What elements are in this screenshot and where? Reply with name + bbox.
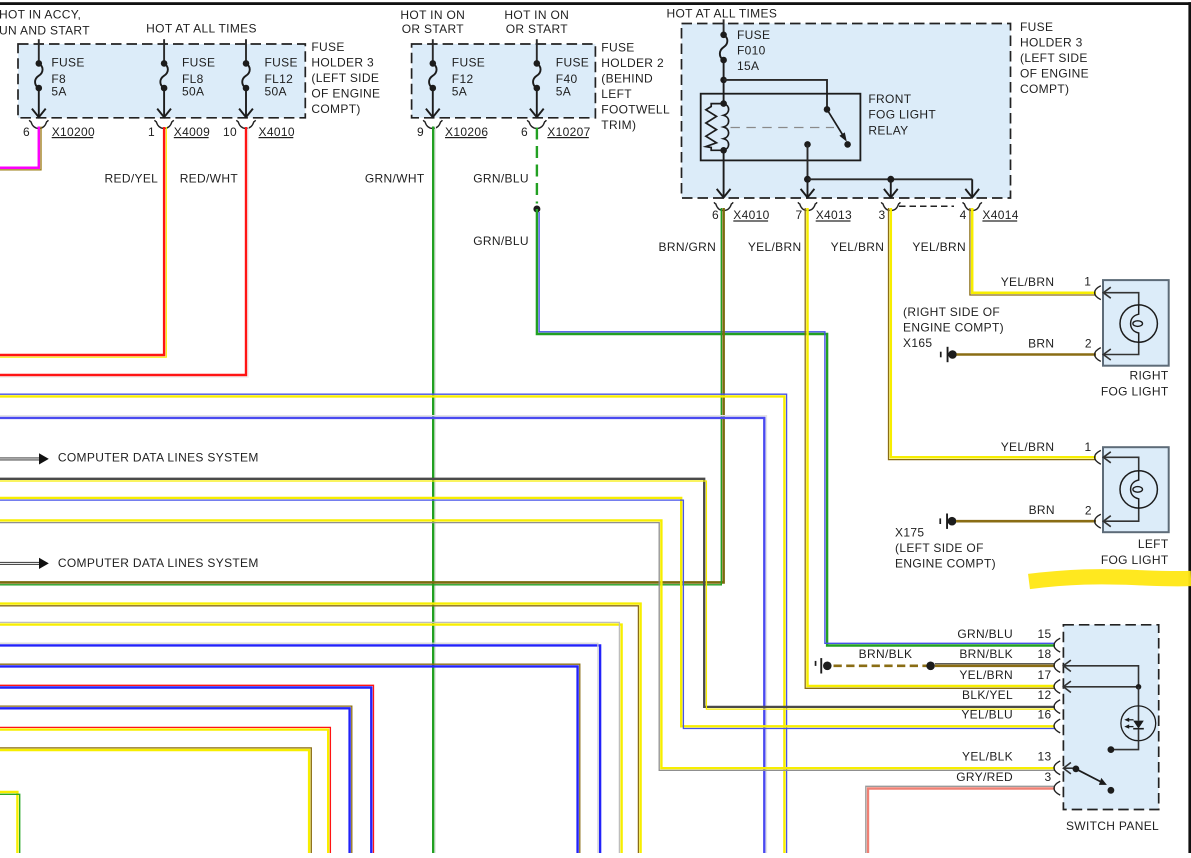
node fuse output junction	[720, 77, 727, 84]
fuse F40 5A	[530, 60, 544, 117]
svg-text:7: 7	[795, 208, 802, 222]
svg-text:X10200: X10200	[52, 125, 95, 139]
wire GRN/WHT from X10206 pin 9 to bottom edge	[432, 127, 434, 854]
svg-text:HOLDER 3: HOLDER 3	[311, 56, 374, 70]
switch panel internal wiring pin 17	[1063, 686, 1138, 688]
svg-text:GRN/WHT: GRN/WHT	[365, 171, 425, 185]
wire BRN to right fog light pin 2	[957, 353, 1097, 356]
pin 17 bracket	[1054, 680, 1060, 694]
svg-text:GRN/BLU: GRN/BLU	[957, 627, 1013, 641]
left fog light pin 2 bracket and arrow	[1095, 514, 1101, 528]
relay coil arcs	[724, 104, 729, 151]
wire YEL/BLK left edge to switch panel pin 13	[0, 520, 1055, 768]
node LED terminal	[1108, 746, 1115, 753]
svg-text:FUSE: FUSE	[601, 41, 634, 55]
node output junction 2	[887, 176, 894, 183]
svg-text:1: 1	[1084, 275, 1091, 289]
svg-text:OR START: OR START	[402, 22, 465, 36]
svg-text:X175: X175	[895, 526, 924, 540]
wire junction to switch upper contact	[724, 80, 827, 107]
wire stub into F010	[723, 19, 725, 34]
left fog light internal wiring	[1103, 457, 1138, 521]
svg-text:HOT AT ALL TIMES: HOT AT ALL TIMES	[667, 7, 778, 21]
wire relay output down	[807, 144, 809, 179]
svg-text:(BEHIND: (BEHIND	[601, 72, 653, 86]
svg-text:18: 18	[1037, 647, 1051, 661]
svg-text:FOOTWELL: FOOTWELL	[601, 103, 670, 117]
fuse FL12 50A	[239, 60, 253, 117]
svg-text:YEL/BRN: YEL/BRN	[1001, 440, 1055, 454]
svg-text:HOT IN ON: HOT IN ON	[400, 8, 465, 22]
wire BLU/BRN left edge to bottom 1	[0, 666, 578, 853]
splice X165	[940, 352, 942, 358]
svg-text:10: 10	[223, 125, 237, 139]
right fog light pin 1 bracket and arrow	[1095, 286, 1101, 300]
svg-text:(LEFT SIDE: (LEFT SIDE	[311, 71, 379, 85]
svg-text:6: 6	[521, 125, 528, 139]
wire to pin 3 with arrow	[884, 179, 898, 197]
relay actuator dashed link	[731, 127, 835, 129]
svg-text:OR START: OR START	[506, 22, 569, 36]
svg-text:HOT IN ACCY,: HOT IN ACCY,	[0, 8, 81, 22]
svg-text:15A: 15A	[737, 59, 759, 73]
svg-text:3: 3	[1044, 770, 1051, 784]
svg-text:RELAY: RELAY	[868, 123, 908, 137]
svg-text:FOG LIGHT: FOG LIGHT	[1101, 553, 1169, 567]
relay output contact	[804, 141, 811, 148]
wire YEL/BLU left edge to bottom (upper)	[0, 396, 784, 853]
wire computer data lines 1	[0, 458, 39, 460]
svg-text:X4009: X4009	[174, 125, 210, 139]
svg-text:X4014: X4014	[982, 208, 1018, 222]
svg-text:COMPUTER DATA LINES SYSTEM: COMPUTER DATA LINES SYSTEM	[58, 451, 259, 465]
svg-text:5A: 5A	[556, 85, 571, 99]
LED circle	[1121, 706, 1156, 741]
left fog light bulb	[1120, 471, 1157, 508]
svg-text:6: 6	[712, 208, 719, 222]
svg-text:YEL/BRN: YEL/BRN	[912, 240, 966, 254]
svg-text:TRIM): TRIM)	[601, 118, 636, 132]
svg-text:LEFT: LEFT	[1138, 537, 1169, 551]
svg-text:ENGINE COMPT): ENGINE COMPT)	[895, 557, 996, 571]
left fog light pin 1 bracket and arrow	[1095, 450, 1101, 464]
svg-text:YEL/BRN: YEL/BRN	[831, 240, 885, 254]
svg-text:BRN/BLK: BRN/BLK	[959, 647, 1013, 661]
fuse holder 3 (right) box	[682, 24, 1011, 199]
wire RED/WHT from X4010 pin 10 to left edge	[0, 127, 246, 375]
svg-text:16: 16	[1037, 708, 1051, 722]
svg-text:SWITCH PANEL: SWITCH PANEL	[1066, 819, 1159, 833]
relay coil node top	[720, 100, 727, 107]
svg-text:BRN: BRN	[1028, 336, 1054, 350]
svg-text:(LEFT SIDE OF: (LEFT SIDE OF	[895, 541, 984, 555]
svg-text:4: 4	[960, 208, 967, 222]
wire LED to terminal	[1111, 729, 1139, 750]
svg-text:COMPT): COMPT)	[1020, 82, 1069, 96]
svg-text:RED/WHT: RED/WHT	[180, 171, 239, 185]
svg-text:FUSE: FUSE	[737, 28, 770, 42]
svg-text:FUSE: FUSE	[311, 40, 344, 54]
wire YEL/BRN from relay pin 3 to left fog light	[891, 208, 1096, 457]
svg-text:BLK/YEL: BLK/YEL	[962, 688, 1013, 702]
fuse holder 2 box	[412, 44, 596, 118]
svg-text:YEL/BLU: YEL/BLU	[961, 708, 1013, 722]
wire GRN/BLU to switch panel pin 15	[537, 209, 1055, 646]
svg-text:FRONT: FRONT	[868, 92, 911, 106]
wire BLU/RED left edge to bottom	[0, 688, 371, 854]
svg-text:FOG LIGHT: FOG LIGHT	[1101, 385, 1169, 399]
svg-text:OF ENGINE: OF ENGINE	[311, 87, 380, 101]
pin 15 bracket	[1054, 638, 1060, 652]
wire BLU/WHT left edge to bottom	[0, 418, 764, 853]
svg-text:HOT AT ALL TIMES: HOT AT ALL TIMES	[146, 22, 257, 36]
fuse FL8 50A	[157, 60, 171, 117]
svg-text:X10207: X10207	[547, 125, 590, 139]
highlighter mark	[1029, 577, 1191, 582]
switch blade with arrow	[1076, 769, 1100, 782]
pin 16 bracket	[1054, 719, 1060, 733]
wire stub into F8	[38, 39, 40, 63]
svg-text:FUSE: FUSE	[556, 56, 589, 70]
right fog light bulb	[1120, 305, 1157, 342]
svg-text:OF ENGINE: OF ENGINE	[1020, 67, 1089, 81]
pin 13 arrow	[1063, 763, 1071, 774]
svg-text:6: 6	[23, 125, 30, 139]
svg-text:GRN/BLU: GRN/BLU	[473, 171, 529, 185]
wire GRY/RED from pin 3 to bottom edge	[868, 789, 1055, 854]
svg-text:YEL/BRN: YEL/BRN	[748, 240, 802, 254]
switch panel box	[1063, 625, 1158, 810]
svg-text:3: 3	[878, 208, 885, 222]
svg-text:FOG LIGHT: FOG LIGHT	[868, 108, 936, 122]
svg-text:(RIGHT SIDE OF: (RIGHT SIDE OF	[903, 305, 1000, 319]
svg-text:YEL/BRN: YEL/BRN	[1001, 275, 1055, 289]
wire stub into F12	[432, 39, 434, 63]
LED diode triangle	[1133, 721, 1144, 729]
fuse F8 5A	[32, 60, 46, 117]
svg-text:1: 1	[1084, 440, 1091, 454]
svg-text:2: 2	[1085, 336, 1092, 350]
right fog light internal wiring	[1103, 293, 1138, 355]
pin 13 bracket	[1054, 761, 1060, 775]
svg-text:ENGINE COMPT): ENGINE COMPT)	[903, 321, 1004, 335]
svg-text:BRN/BLK: BRN/BLK	[859, 647, 913, 661]
wire computer data lines 2	[0, 562, 39, 564]
pin 18 arrow	[1063, 660, 1071, 671]
fuse F12 5A	[426, 60, 440, 117]
page border top	[0, 2, 1191, 5]
svg-text:17: 17	[1037, 668, 1051, 682]
splice X175	[939, 518, 941, 524]
svg-text:F010: F010	[737, 44, 766, 58]
wire stub into FL8	[163, 39, 165, 63]
svg-text:YEL/BLK: YEL/BLK	[962, 750, 1013, 764]
svg-text:X165: X165	[903, 336, 932, 350]
svg-text:COMPT): COMPT)	[311, 102, 360, 116]
svg-text:FUSE: FUSE	[265, 56, 298, 70]
svg-text:X10206: X10206	[445, 125, 488, 139]
svg-text:RED/YEL: RED/YEL	[105, 171, 159, 185]
relay coil resistor zigzag	[706, 104, 724, 151]
wire output bus	[808, 178, 973, 180]
svg-text:LEFT: LEFT	[601, 87, 632, 101]
svg-text:1: 1	[148, 125, 155, 139]
svg-text:BRN: BRN	[1029, 503, 1055, 517]
svg-text:GRY/RED: GRY/RED	[956, 770, 1013, 784]
right fog light box	[1103, 280, 1169, 366]
switch panel internal wiring pin 18	[1063, 666, 1138, 687]
node GRN/BLU splice	[533, 206, 540, 213]
svg-text:(LEFT SIDE: (LEFT SIDE	[1020, 51, 1088, 65]
svg-text:5A: 5A	[51, 85, 66, 99]
node output junction 1	[804, 176, 811, 183]
wire BLK/YEL left edge to switch panel pin 12	[0, 479, 1055, 707]
wire YEL/WHT left edge to bottom	[0, 625, 622, 853]
front fog light relay box	[701, 94, 861, 161]
wire VIO from X10200 pin 6 to left edge	[0, 127, 39, 168]
wire stub into F40	[536, 39, 538, 63]
wire coil to pin 6 with arrow	[717, 150, 731, 197]
connector X4014 dashed bridge	[899, 205, 954, 207]
svg-text:HOLDER 3: HOLDER 3	[1020, 36, 1083, 50]
svg-text:RIGHT: RIGHT	[1130, 369, 1169, 383]
pin 3 bracket	[1054, 781, 1060, 795]
svg-text:GRN/BLU: GRN/BLU	[473, 234, 529, 248]
wire stub into FL12	[245, 39, 247, 63]
fuse F010 15A	[720, 32, 728, 104]
wire BRN to left fog light pin 2	[956, 520, 1096, 523]
svg-text:50A: 50A	[265, 85, 287, 99]
switch contact pin 13	[1063, 767, 1073, 769]
pin 12 bracket	[1054, 700, 1060, 714]
svg-text:X4013: X4013	[816, 208, 852, 222]
wire BRN/GRN from relay pin 6 to left edge	[0, 208, 724, 582]
relay switch blade with arrow	[827, 109, 844, 136]
svg-text:RUN AND START: RUN AND START	[0, 23, 90, 37]
svg-text:12: 12	[1037, 688, 1051, 702]
right fog light pin 2 bracket and arrow	[1095, 348, 1101, 362]
svg-text:X4010: X4010	[259, 125, 295, 139]
wire BLU/BRN left edge to bottom 2	[0, 708, 350, 853]
wire junction to LED	[1138, 687, 1140, 721]
svg-text:9: 9	[417, 125, 424, 139]
svg-text:5A: 5A	[452, 85, 467, 99]
wire to pin 4 with arrow	[965, 179, 979, 197]
svg-text:FUSE: FUSE	[51, 56, 84, 70]
wire YEL/BRN from relay pin 4 to right fog light	[972, 208, 1096, 293]
node BRN/BLK junction	[926, 662, 935, 671]
node internal junction	[1136, 684, 1142, 690]
splice for BRN/BLK	[815, 661, 817, 666]
svg-text:15: 15	[1037, 627, 1051, 641]
wire YEL/BLU left edge to switch panel pin 16	[0, 498, 1055, 726]
pin 17 arrow	[1063, 681, 1071, 692]
svg-text:COMPUTER DATA LINES SYSTEM: COMPUTER DATA LINES SYSTEM	[58, 556, 259, 570]
wire YEL/BRN from relay pin 7 to switch panel pin 17	[808, 208, 1056, 686]
wire BLU/WHT left edge to bottom 1	[0, 645, 600, 853]
switch contact lower	[1108, 787, 1115, 794]
wire YEL/BRN left edge to bottom	[0, 604, 641, 853]
wire YEL/RED left edge to bottom	[0, 730, 328, 853]
svg-text:FUSE: FUSE	[452, 56, 485, 70]
wire to pin 7 with arrow	[801, 179, 815, 197]
page border right	[1188, 2, 1191, 853]
svg-text:X4010: X4010	[733, 208, 769, 222]
svg-text:YEL/BRN: YEL/BRN	[959, 668, 1013, 682]
wire GRN/BLU dashed from X10207 pin 6	[536, 128, 538, 204]
svg-text:BRN/GRN: BRN/GRN	[659, 240, 717, 254]
relay switch upper contact	[824, 106, 831, 113]
wire BRN/BLK dashed	[834, 664, 927, 667]
fuse holder 3 (left) box	[18, 44, 305, 118]
svg-text:50A: 50A	[182, 85, 204, 99]
wire RED/YEL from X4009 pin 1 to left edge	[0, 127, 164, 355]
wire BRN/BLK solid to pin 18	[935, 664, 1055, 667]
wire YEL/BRN nest left edge to bottom	[0, 750, 309, 853]
svg-text:FUSE: FUSE	[1020, 20, 1053, 34]
svg-text:13: 13	[1037, 750, 1051, 764]
svg-text:2: 2	[1085, 504, 1092, 518]
left fog light box	[1103, 447, 1169, 532]
wire YEL/GRN left edge to bottom	[0, 792, 17, 853]
relay coil node bottom	[720, 147, 727, 154]
relay switch lower contact	[844, 141, 851, 148]
svg-text:HOLDER 2: HOLDER 2	[601, 56, 664, 70]
pin 18 bracket	[1054, 659, 1060, 673]
svg-text:HOT IN ON: HOT IN ON	[504, 8, 569, 22]
svg-text:FUSE: FUSE	[182, 56, 215, 70]
LED arrows	[1128, 719, 1133, 721]
